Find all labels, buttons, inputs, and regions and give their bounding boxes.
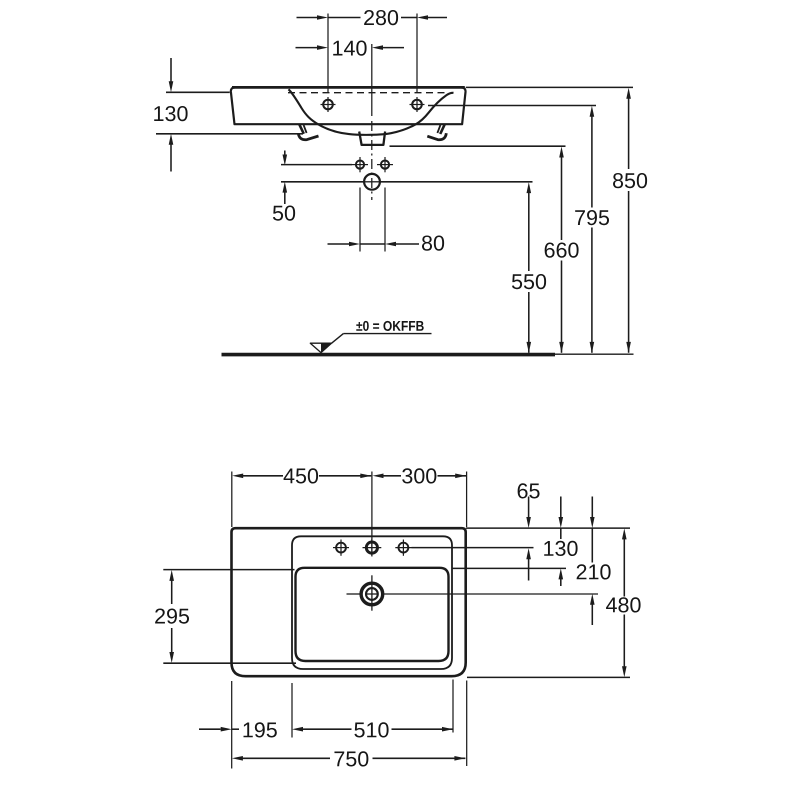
dimension 65 arrows xyxy=(526,497,531,581)
plan vertical centreline xyxy=(371,472,373,556)
dimension 450 line and arrows xyxy=(232,474,371,479)
dimension 80 extension lines xyxy=(360,188,385,252)
dimension 295 line and arrows xyxy=(169,570,174,663)
floor line (thick) xyxy=(222,353,556,357)
dimension 450/300 extension lines xyxy=(232,472,467,528)
hidden rear rim line (dashed) xyxy=(288,92,448,94)
label 80 xyxy=(422,235,444,250)
washbasin plan view - outer outline xyxy=(232,528,466,676)
reference line plan bottom edge xyxy=(467,676,630,678)
label 50 xyxy=(273,205,295,220)
reference line drain box to 660 xyxy=(390,145,566,147)
plan right tap hole xyxy=(395,540,411,556)
drain outlet box (elevation) xyxy=(359,132,385,145)
reference line drain centre to 550 xyxy=(380,181,533,183)
plan left tap hole xyxy=(333,540,349,556)
dimension 850 line and arrows xyxy=(626,88,631,353)
plan centre tap hole xyxy=(363,539,382,557)
reference line drain centre to 210 dim xyxy=(383,593,598,595)
dimension 130 plan arrows xyxy=(559,497,564,587)
reference line top edge to 850 xyxy=(466,86,633,88)
label 750 xyxy=(334,751,368,766)
dimension 80 line and arrows xyxy=(328,242,420,247)
label 130 plan xyxy=(544,541,577,556)
datum level symbol xyxy=(310,334,431,353)
reference line plan top edge xyxy=(466,527,630,529)
label 210 xyxy=(577,564,611,579)
drain hole circle (elevation) xyxy=(364,174,380,190)
label 140 xyxy=(333,40,366,55)
vertical centerline (elevation) xyxy=(371,44,373,200)
dimension 660 line and arrows xyxy=(559,147,564,353)
label 300 xyxy=(402,468,436,483)
label 795 xyxy=(575,210,609,225)
dimension 795 line and arrows xyxy=(590,106,595,353)
label 660 xyxy=(545,242,579,257)
dimension 280 extension lines xyxy=(328,14,417,93)
label 480 xyxy=(606,597,641,612)
dimension 550 line and arrows xyxy=(527,182,532,353)
right fixing hole xyxy=(377,157,393,172)
label 850 xyxy=(613,173,647,188)
dimension 300 line and arrows xyxy=(373,474,467,479)
dimension 130 reference lines xyxy=(156,92,303,134)
label 280 xyxy=(364,10,398,25)
washbasin front elevation - outer body outline xyxy=(231,87,466,124)
dimension 140 line and arrows xyxy=(296,45,405,50)
dimension 195/510 extension lines xyxy=(232,680,467,769)
dimension 50 line and arrows xyxy=(283,151,288,205)
label 550 xyxy=(512,274,546,289)
right fixing bracket xyxy=(427,125,446,140)
right tap hole (elevation) xyxy=(410,97,425,112)
label 510 xyxy=(354,722,388,737)
label 450 xyxy=(284,468,319,483)
left fixing hole xyxy=(352,157,368,172)
dimension 210 arrows xyxy=(590,497,595,626)
label 295 xyxy=(155,608,189,623)
plan bowl outline xyxy=(296,568,449,661)
dimension 280 line and arrows xyxy=(297,15,448,20)
reference line tap hole to 795 xyxy=(428,105,596,107)
reference line tap holes to 65/130 dims xyxy=(412,547,534,549)
dimension 750 line and arrows xyxy=(232,756,466,761)
label 65 xyxy=(518,483,540,498)
dimension 295 reference lines xyxy=(163,570,296,664)
left fixing bracket xyxy=(298,125,318,140)
dimension 510 line and arrows xyxy=(292,727,453,732)
plan inner rim outline xyxy=(292,536,452,669)
label plus-minus 0 = OKFFB xyxy=(356,321,423,331)
floor line (thin continuation) xyxy=(555,353,634,355)
dimension 130 vertical line and arrows xyxy=(169,58,174,172)
left tap hole (elevation) xyxy=(321,97,336,112)
reference line plan shelf edge xyxy=(452,567,566,569)
bowl front silhouette curve xyxy=(289,89,454,135)
dimension 480 line and arrows xyxy=(622,528,627,677)
label 130 xyxy=(154,106,187,121)
dimension 50 reference lines xyxy=(281,165,364,182)
dimension 195 line and arrows xyxy=(199,727,239,732)
plan drain hole circles xyxy=(347,575,383,610)
label 195 xyxy=(244,722,277,737)
